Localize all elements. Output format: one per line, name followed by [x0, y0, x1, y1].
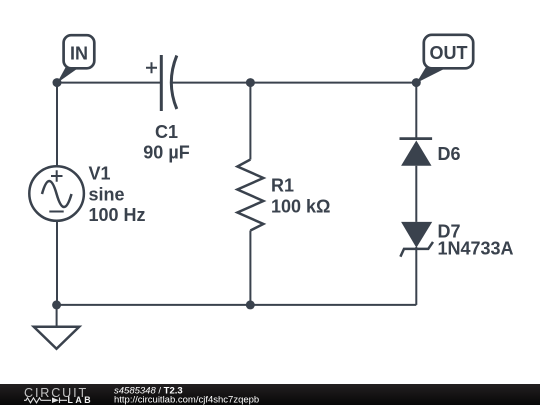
CircuitLab logo: resistor-diode squiggle	[24, 398, 67, 404]
svg-text:V1: V1	[89, 164, 111, 184]
capacitor C1	[146, 55, 177, 111]
wire between D6 and D7	[415, 166, 417, 222]
source V1	[29, 166, 84, 221]
node at IN (top-left junction)	[53, 78, 62, 87]
wire left rail lower (V1 bottom to ground node)	[56, 221, 58, 305]
flag IN	[57, 35, 94, 83]
svg-text:D6: D6	[438, 144, 461, 164]
svg-text:OUT: OUT	[430, 43, 468, 63]
svg-text:IN: IN	[70, 43, 88, 63]
node bottom-left junction	[52, 300, 61, 309]
resistor R1	[237, 160, 263, 231]
svg-text:C1: C1	[155, 122, 178, 142]
wire right rail lower (D7 to bottom rail)	[415, 247, 417, 305]
wire bottom rail	[57, 304, 416, 306]
node top middle junction	[246, 78, 255, 87]
wire left rail upper (IN node to V1 top)	[56, 83, 58, 167]
flag OUT	[416, 35, 473, 83]
svg-text:R1: R1	[271, 175, 294, 195]
svg-text:sine: sine	[89, 184, 125, 204]
zener diode D7	[400, 222, 433, 257]
diode D6	[400, 139, 433, 166]
svg-text:100 Hz: 100 Hz	[89, 205, 146, 225]
wire middle rail lower (R1 to bottom rail)	[249, 231, 251, 305]
node bottom middle junction	[246, 300, 255, 309]
wire top-right from C1 to OUT node	[172, 82, 416, 84]
wire right rail upper (OUT node to D6)	[415, 83, 417, 139]
wire middle rail upper (top node to R1)	[249, 83, 251, 160]
svg-text:100 kΩ: 100 kΩ	[271, 197, 330, 217]
wire ground stub	[56, 305, 58, 327]
footer bar	[0, 384, 540, 405]
wire top-left from IN node to C1	[57, 82, 160, 84]
svg-text:1N4733A: 1N4733A	[438, 239, 514, 259]
ground	[34, 327, 79, 349]
node at OUT (top-right junction)	[412, 78, 421, 87]
svg-text:90 µF: 90 µF	[143, 143, 189, 163]
